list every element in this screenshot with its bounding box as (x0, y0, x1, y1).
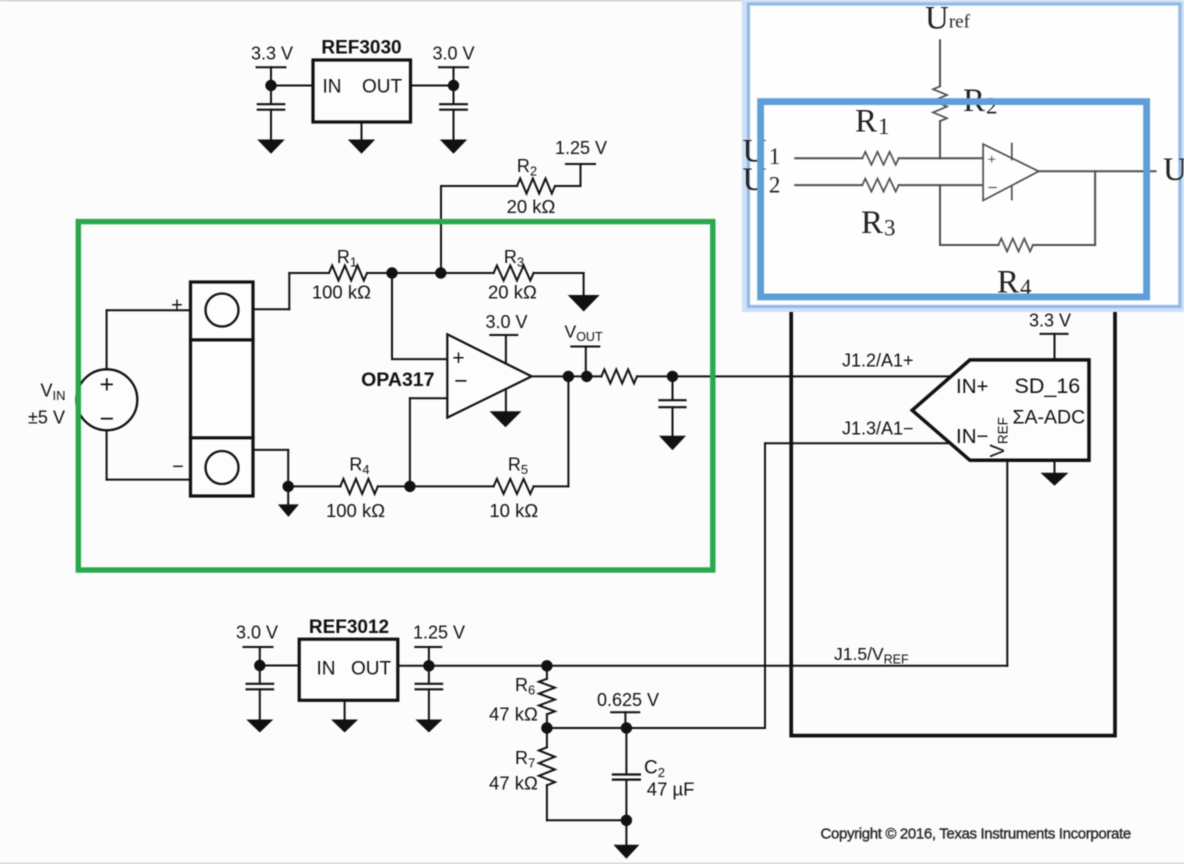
svg-text:1.25 V: 1.25 V (555, 138, 607, 158)
svg-text:−: − (454, 368, 467, 394)
svg-text:OUT: OUT (362, 77, 403, 98)
svg-text:IN: IN (317, 659, 336, 680)
svg-text:IN+: IN+ (956, 375, 988, 398)
svg-text:47 kΩ: 47 kΩ (489, 772, 538, 793)
svg-text:Copyright © 2016, Texas Instru: Copyright © 2016, Texas Instruments Inco… (821, 826, 1131, 843)
svg-text:+: + (99, 371, 114, 399)
svg-text:0.625 V: 0.625 V (597, 690, 659, 710)
svg-text:−: − (99, 405, 114, 433)
svg-text:+: + (171, 295, 183, 317)
svg-text:+: + (988, 152, 996, 168)
svg-text:IN−: IN− (956, 425, 988, 448)
svg-text:ΣA-ADC: ΣA-ADC (1013, 407, 1086, 429)
svg-text:IN: IN (323, 77, 342, 98)
svg-text:SD_16: SD_16 (1015, 374, 1081, 398)
svg-text:47 kΩ: 47 kΩ (489, 704, 538, 725)
svg-text:20 kΩ: 20 kΩ (507, 196, 556, 217)
svg-text:3.3 V: 3.3 V (1029, 311, 1071, 331)
svg-text:100 kΩ: 100 kΩ (326, 500, 385, 521)
svg-text:J1.2/A1+: J1.2/A1+ (842, 350, 914, 370)
svg-text:J1.3/A1−: J1.3/A1− (842, 418, 914, 438)
svg-text:OPA317: OPA317 (361, 369, 434, 391)
svg-text:U: U (1163, 152, 1184, 188)
svg-text:±5 V: ±5 V (28, 408, 65, 428)
svg-text:1.25 V: 1.25 V (413, 622, 465, 642)
svg-text:−: − (988, 178, 998, 198)
svg-text:−: − (172, 456, 184, 478)
svg-text:10 kΩ: 10 kΩ (489, 500, 538, 521)
svg-text:47 µF: 47 µF (647, 779, 695, 800)
svg-text:20 kΩ: 20 kΩ (488, 282, 537, 303)
svg-text:3.0 V: 3.0 V (485, 312, 527, 332)
svg-text:3.0 V: 3.0 V (236, 622, 278, 642)
svg-text:REF3012: REF3012 (309, 617, 389, 638)
svg-text:3.0 V: 3.0 V (432, 44, 474, 64)
svg-text:REF3030: REF3030 (321, 38, 401, 59)
svg-text:3.3 V: 3.3 V (251, 44, 293, 64)
svg-text:100 kΩ: 100 kΩ (312, 282, 371, 303)
svg-text:OUT: OUT (351, 659, 392, 680)
